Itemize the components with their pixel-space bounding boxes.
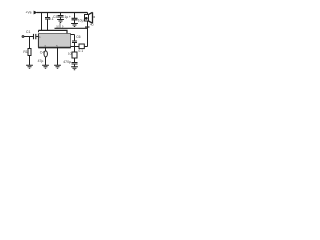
svg-text:+VB: +VB [26,11,32,15]
svg-text:C1: C1 [26,30,30,34]
svg-text:.1µ: .1µ [63,15,68,19]
svg-text:C3: C3 [53,15,57,19]
svg-text:47µ: 47µ [38,59,44,63]
svg-text:4Ω: 4Ω [90,23,94,27]
svg-text:C6: C6 [76,35,80,39]
svg-text:R1: R1 [23,50,27,54]
svg-text:0.1: 0.1 [78,49,83,53]
svg-text:10µ: 10µ [78,19,84,23]
svg-text:C4: C4 [40,51,44,55]
svg-text:+: + [69,15,71,19]
svg-text:470µ: 470µ [63,60,71,64]
